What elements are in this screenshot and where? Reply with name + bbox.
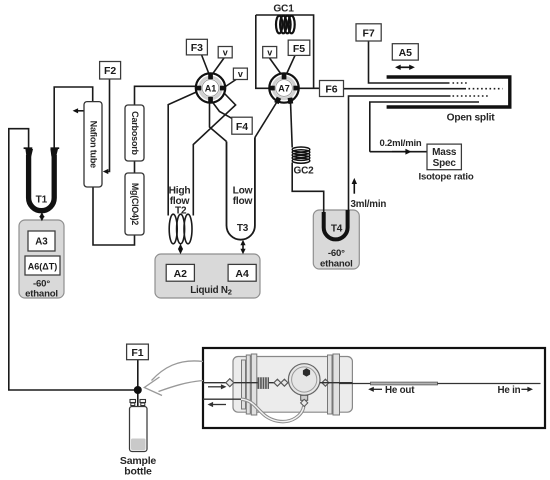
double arrow T3 to liquid N2 [240, 240, 245, 255]
pump right fitting diamond [322, 379, 329, 386]
box A4 [228, 264, 256, 281]
box v right A1 [233, 68, 247, 79]
open split tube body [387, 77, 510, 107]
pump valve knob circle [288, 364, 320, 396]
cold bath box -60 ethanol (T1) [19, 220, 64, 298]
wire F1 to junction [137, 360, 139, 388]
pump fitting diamonds middle [274, 379, 281, 386]
svg-text:F2: F2 [104, 65, 116, 77]
svg-text:Isotope ratio: Isotope ratio [419, 172, 474, 183]
svg-text:v: v [223, 48, 228, 58]
svg-text:T3: T3 [237, 223, 249, 234]
wire F6 to open split capillary 2 [344, 88, 467, 90]
svg-text:v: v [238, 69, 243, 79]
VALVE A7 [269, 73, 300, 104]
callout curved arrow from pump detail to junction [144, 361, 203, 396]
box F5 [288, 40, 310, 55]
pump knob bottom fitting [301, 395, 308, 406]
box Mass Spec [427, 144, 461, 170]
svg-text:F3: F3 [191, 42, 203, 54]
column Nafion tube [84, 102, 102, 187]
pump right flange plates [328, 354, 340, 415]
box F1 [127, 344, 149, 360]
svg-text:bottle: bottle [124, 466, 152, 478]
wire v box to A1 top port [213, 58, 225, 74]
double arrow under A5 [395, 65, 415, 70]
svg-text:Nafion tube: Nafion tube [89, 121, 99, 168]
wire A1 right-bottom zigzag to T2 right wall [193, 93, 235, 216]
svg-text:0.2ml/min: 0.2ml/min [380, 138, 422, 149]
svg-text:A4: A4 [235, 268, 249, 280]
pump inlet line upper [203, 382, 289, 384]
wire A1 bottom-left port to T2 left wall [168, 92, 197, 216]
box F2 [100, 62, 121, 80]
svg-text:F1: F1 [131, 347, 143, 359]
svg-text:T4: T4 [331, 224, 343, 235]
liquid N2 bath box [155, 254, 260, 298]
wire F2 down to Nafion side [105, 79, 110, 172]
pump arrow left lower [208, 402, 227, 407]
svg-text:A3: A3 [35, 237, 48, 248]
svg-text:Mass: Mass [432, 147, 457, 158]
box F7 [356, 24, 381, 41]
box F4 [232, 117, 252, 134]
wire A7 right port to F6 [299, 87, 320, 89]
pump curved tube [241, 399, 304, 421]
wire GC1 loop top and right side [256, 15, 314, 88]
wire Carbosorb top to valve A1 left port [135, 86, 196, 105]
trap T1 right joint [50, 148, 59, 156]
pump arrow right upper [208, 384, 227, 389]
double arrow T1 to A3 [39, 212, 44, 221]
wire junction into sample bottle [137, 390, 139, 448]
VALVE A1 [195, 73, 226, 103]
pump left flange plates [242, 354, 257, 415]
box A3 [28, 231, 55, 251]
pump body [233, 357, 352, 413]
svg-text:Carbosorb: Carbosorb [130, 111, 140, 155]
arrow F2 into Nafion [103, 169, 109, 174]
box A6 [25, 256, 60, 275]
arrow He out [368, 387, 382, 392]
pump outlet line right [320, 382, 352, 384]
svg-text:A2: A2 [174, 268, 188, 280]
box A2 [166, 264, 194, 281]
svg-text:ethanol: ethanol [25, 289, 58, 300]
svg-text:High: High [169, 186, 191, 197]
needle thick segment [339, 383, 371, 385]
sample bottle [130, 400, 148, 452]
double arrow T2 to liquid N2 [178, 244, 183, 255]
wire T4 right arm riser to open split capillary 3 [349, 96, 451, 210]
svg-text:F6: F6 [325, 84, 337, 96]
wire Nafion vent stub [77, 110, 84, 112]
column Mg(ClO4)2 [125, 173, 144, 235]
svg-text:T2: T2 [175, 206, 187, 217]
wire F7 down and into open split capillary 1 [369, 41, 450, 83]
box A5 [392, 44, 418, 60]
svg-text:A7: A7 [278, 83, 290, 93]
svg-text:Low: Low [233, 186, 253, 197]
wire A1 bottom port to F4 [212, 102, 232, 119]
svg-text:v: v [267, 48, 272, 58]
box v top A7 [263, 47, 277, 58]
svg-text:Open split: Open split [447, 113, 496, 124]
svg-text:F4: F4 [236, 121, 248, 133]
needle thin line to He in [437, 383, 540, 385]
wire right v box to A1 right port [226, 80, 237, 87]
wire mass spec capillary 4 [370, 102, 479, 152]
wire T1 right arm to Nafion tube top [54, 87, 92, 148]
svg-text:Liquid N2: Liquid N2 [190, 285, 232, 296]
arrow He in [521, 387, 533, 392]
box F6 [320, 81, 344, 97]
svg-text:F7: F7 [362, 27, 374, 39]
wire v box to A7 top port [270, 58, 282, 74]
wire F3 to A1 top port [202, 55, 209, 74]
svg-text:GC2: GC2 [294, 166, 315, 177]
open split capillary dashes row 1 [453, 82, 470, 84]
svg-text:He out: He out [385, 385, 415, 396]
wire T1 left arm to sample junction (long left line) [9, 129, 134, 390]
svg-text:GC1: GC1 [273, 4, 294, 15]
WHITE LABEL BOXES [25, 24, 461, 360]
svg-text:Spec: Spec [433, 158, 457, 169]
trap T1 left joint [24, 148, 33, 156]
trap T3 low flow tube [227, 138, 255, 240]
wire mass spec connection line [370, 151, 427, 153]
wire A7 bottom port to GC2 coil [291, 102, 293, 148]
GC1 coil [276, 16, 295, 34]
arrow on mass spec line 0.2ml/min [405, 149, 411, 155]
trap T4 U-tube thick [324, 210, 348, 239]
svg-text:He in: He in [498, 385, 521, 396]
open split capillary dashes row 3 [453, 95, 491, 97]
GC2 coil [292, 147, 310, 163]
pump lower line [203, 398, 241, 400]
pump fitting diamond left [226, 379, 234, 387]
junction dot at sample bottle [134, 386, 142, 394]
svg-text:A5: A5 [399, 47, 413, 59]
arrow Nafion vent [73, 108, 79, 113]
trap T2 high flow tube loops [169, 214, 192, 244]
svg-text:A1: A1 [205, 83, 217, 93]
wire GC2 coil to T4 left arm [292, 163, 324, 214]
wire Nafion bottom to Mg(ClO4)2 bottom [93, 187, 135, 245]
svg-text:Mg(ClO4)2: Mg(ClO4)2 [130, 183, 140, 225]
box v top A1 [218, 47, 232, 58]
PUMP DETAIL ENCLOSURE [203, 348, 545, 428]
wire GC1 loop left side [256, 15, 269, 88]
svg-text:flow: flow [233, 196, 253, 207]
svg-text:T1: T1 [36, 195, 48, 206]
arrow up 3ml/min [352, 178, 357, 194]
column Carbosorb [125, 105, 144, 161]
wire F5 to A7 top port [287, 55, 296, 74]
open split capillary dashes row 2 [469, 88, 503, 90]
svg-text:F5: F5 [293, 43, 305, 55]
svg-text:-60°: -60° [328, 248, 345, 259]
wire A1 bottom port to T3 left wall [210, 104, 227, 142]
svg-text:3ml/min: 3ml/min [351, 199, 387, 210]
trap T1 U-tube [29, 155, 55, 211]
svg-text:ethanol: ethanol [320, 259, 353, 270]
box F3 [186, 39, 207, 55]
wire Carbosorb to Mg(ClO4)2 [134, 161, 136, 173]
pump ribbed filter block [258, 377, 270, 389]
svg-text:A6(ΔT): A6(ΔT) [28, 261, 57, 271]
cold bath box -60 ethanol (T4) [313, 210, 359, 269]
wire A7 bottom-left port to T3 right wall [255, 101, 278, 138]
